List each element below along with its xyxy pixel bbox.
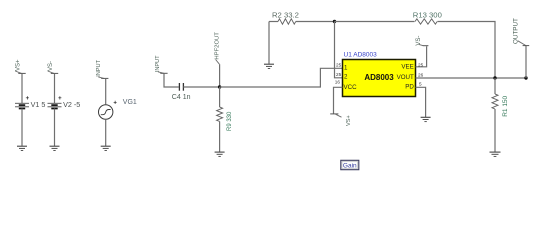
svg-text:Gain: Gain	[343, 163, 357, 170]
svg-text:5: 5	[419, 81, 422, 86]
svg-text:HPF2OUT: HPF2OUT	[215, 32, 221, 60]
node (R2/R13 junction)	[333, 20, 336, 23]
ground (PD)	[421, 117, 431, 121]
svg-text:AD8003: AD8003	[364, 73, 394, 82]
wire VS+ to V1	[21, 73, 23, 103]
resistor R13	[413, 11, 442, 25]
svg-text:VS-: VS-	[416, 36, 422, 46]
jumper VS+ (VCC supply)	[330, 114, 352, 126]
wire R2 to node	[296, 21, 335, 23]
node (output corner)	[524, 76, 527, 79]
op-amp U1 AD8003	[343, 51, 416, 96]
jumper INPUT (above VG1)	[96, 59, 108, 78]
wire V1 to ground	[21, 109, 23, 146]
jumper VS- (VEE supply)	[416, 36, 429, 46]
ground (V1)	[17, 146, 27, 150]
wire R2 left to ground	[268, 22, 270, 64]
ground (R9)	[215, 152, 225, 156]
svg-text:R1 150: R1 150	[502, 95, 509, 116]
svg-text:25: 25	[336, 72, 342, 77]
battery V2	[48, 96, 81, 109]
svg-text:INPUT: INPUT	[155, 55, 161, 72]
svg-text:PD: PD	[405, 83, 414, 90]
node (R13/R1 junction)	[493, 76, 496, 79]
resistor R9	[217, 87, 233, 152]
wire INPUT jumper to VG1	[105, 78, 107, 104]
svg-text:25: 25	[336, 63, 342, 68]
wire INPUT to C4	[164, 73, 179, 87]
svg-text:+: +	[113, 101, 117, 107]
ground (V2)	[50, 146, 60, 150]
resistor R2	[269, 11, 299, 25]
svg-text:OUTPUT: OUTPUT	[513, 18, 520, 44]
wire HPF2OUT to node	[219, 64, 221, 87]
svg-text:VS+: VS+	[346, 115, 352, 126]
svg-text:VEE: VEE	[401, 64, 413, 71]
wire node to op-amp pin 2	[335, 22, 343, 78]
wire node to op-amp pin 1	[220, 68, 343, 87]
wire R13 to output node	[438, 22, 496, 79]
svg-text:+: +	[26, 96, 30, 102]
svg-text:C4 1n: C4 1n	[172, 94, 191, 101]
capacitor C4	[172, 83, 191, 101]
resistor R1	[492, 78, 509, 152]
svg-text:1: 1	[344, 64, 348, 71]
wire VS- to V2	[54, 73, 56, 103]
wire PD pin to ground	[416, 87, 426, 117]
wire output riser	[525, 46, 527, 79]
jumper VS- (left supply)	[48, 61, 59, 73]
ground (R2)	[264, 64, 274, 68]
svg-text:VOUT: VOUT	[397, 74, 414, 81]
svg-text:V2 -5: V2 -5	[63, 100, 80, 109]
svg-text:INPUT: INPUT	[96, 59, 102, 76]
node (C4/R9 junction)	[218, 85, 221, 88]
svg-text:R9 330: R9 330	[227, 111, 233, 131]
button Gain	[341, 160, 359, 169]
svg-text:VS-: VS-	[48, 61, 54, 71]
svg-text:26: 26	[418, 72, 424, 77]
wire VOUT net	[416, 77, 527, 79]
jumper HPF2OUT	[215, 32, 221, 64]
source VG1	[99, 99, 137, 119]
wire C4 to node	[183, 86, 219, 88]
wire VG1 to ground	[105, 119, 107, 146]
ground (R1)	[490, 152, 501, 156]
jumper INPUT (signal input)	[155, 55, 168, 73]
svg-text:R13 300: R13 300	[413, 11, 442, 20]
wire V2 to ground	[54, 109, 56, 146]
svg-text:VCC: VCC	[344, 84, 358, 91]
svg-text:16: 16	[335, 79, 341, 84]
wire VCC pin stub	[334, 87, 343, 114]
wire VS- to VEE pin	[416, 46, 427, 67]
svg-text:VS+: VS+	[16, 59, 22, 71]
svg-text:VG1: VG1	[123, 99, 137, 106]
svg-text:2: 2	[344, 74, 348, 81]
ground (VG1)	[101, 146, 111, 150]
svg-text:+: +	[58, 96, 62, 102]
svg-text:V1 5: V1 5	[31, 100, 46, 109]
svg-text:U1 AD8003: U1 AD8003	[344, 51, 378, 58]
svg-text:R2 33.2: R2 33.2	[272, 11, 299, 20]
battery V1	[15, 96, 45, 109]
jumper OUTPUT	[513, 18, 530, 46]
jumper VS+ (left supply)	[15, 59, 26, 73]
wire node to R13	[335, 21, 415, 23]
